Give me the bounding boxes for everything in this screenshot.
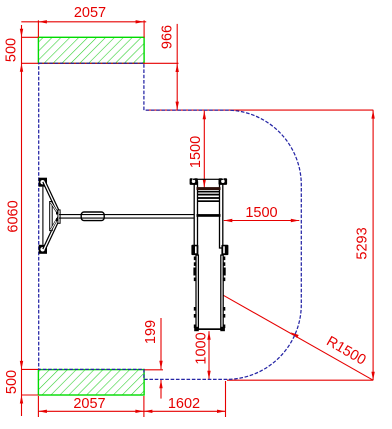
swing A-frame top foot xyxy=(39,178,47,187)
swing apex vertical bar xyxy=(58,210,60,223)
slide bottom edge xyxy=(196,328,224,330)
svg-text:2057: 2057 xyxy=(74,5,106,21)
dimension 1000 xyxy=(208,331,210,379)
tower top-left clamp xyxy=(190,178,198,185)
dimension 1500 horizontal xyxy=(224,220,299,222)
slide left rail xyxy=(196,255,198,329)
beam coupler sleeve xyxy=(81,212,104,221)
dimension 500 top-left xyxy=(22,25,179,416)
radius leader R1500 xyxy=(223,295,374,380)
hatched safety zone top xyxy=(38,37,144,63)
dimension 2057 top xyxy=(21,20,146,37)
tower top-right clamp xyxy=(219,178,228,185)
svg-text:500: 500 xyxy=(4,38,20,62)
tower left post xyxy=(194,182,197,248)
hatched safety zone bottom xyxy=(38,370,144,395)
dimension 500 bottom-left xyxy=(22,369,39,395)
dimension 199 xyxy=(144,318,163,399)
swing A-frame leg bottom (tube) xyxy=(44,218,59,250)
tower bottom-left clamp xyxy=(191,245,198,255)
dimension 966 xyxy=(146,24,373,110)
slide right rail xyxy=(221,255,223,329)
boundary outline (safety area, dashed blue) xyxy=(39,63,302,379)
svg-text:966: 966 xyxy=(160,25,176,49)
svg-text:1500: 1500 xyxy=(245,205,277,221)
platform rungs xyxy=(197,191,221,217)
swing A-frame bottom foot xyxy=(39,245,47,254)
svg-text:6060: 6060 xyxy=(6,200,22,232)
svg-text:5293: 5293 xyxy=(354,227,370,259)
svg-text:1000: 1000 xyxy=(194,332,210,364)
slide bottom feet xyxy=(194,327,225,331)
svg-text:2057: 2057 xyxy=(73,396,105,412)
swing inner vertical tube xyxy=(50,202,53,231)
platform front edge (dark maroon) xyxy=(197,187,221,190)
swing frame ground line xyxy=(42,187,44,245)
dimension 1500 vertical xyxy=(203,111,205,188)
platform back rail xyxy=(193,179,224,180)
svg-text:1500: 1500 xyxy=(188,136,204,168)
dimension 5293 xyxy=(227,110,373,380)
svg-text:199: 199 xyxy=(143,320,159,344)
apex connector bolts xyxy=(56,212,58,221)
svg-text:500: 500 xyxy=(4,370,20,394)
slide rail ticks xyxy=(193,257,225,329)
swing A-frame leg top (tube) xyxy=(44,182,59,214)
dimension 2057 bottom + 1602 xyxy=(38,381,225,417)
tower bottom-right clamp xyxy=(221,245,228,255)
svg-text:1602: 1602 xyxy=(168,396,200,412)
beam tube to tower xyxy=(59,215,196,219)
dimension 6060 xyxy=(6,200,24,369)
tower right post xyxy=(220,182,223,248)
swing inner diagonal braces xyxy=(51,203,58,230)
